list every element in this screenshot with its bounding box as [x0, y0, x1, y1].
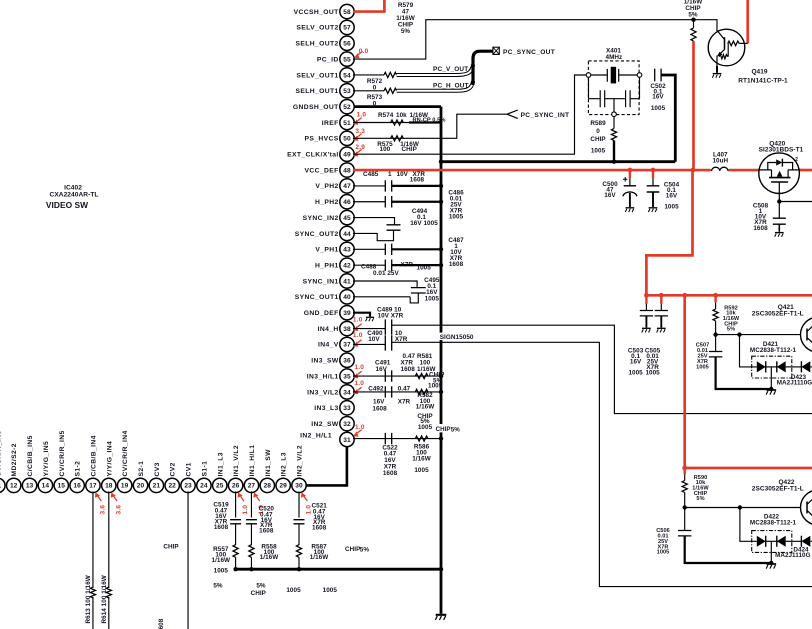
- svg-text:23: 23: [184, 483, 192, 490]
- junction base node/diode branch D422: [738, 505, 742, 509]
- svg-text:1608: 1608: [449, 261, 464, 268]
- pin 12 MD2/S2-2: [7, 478, 21, 492]
- svg-text:1005: 1005: [214, 568, 229, 575]
- pin 39 GND_DEF: [340, 306, 354, 320]
- wire IN4_V to right side: [392, 342, 812, 586]
- diode D424 MA2J1110: [800, 536, 802, 547]
- svg-text:40: 40: [343, 294, 351, 301]
- wire pin 45 to C494: [353, 218, 395, 225]
- svg-text:Y/Y/G_IN4: Y/Y/G_IN4: [106, 441, 113, 477]
- svg-text:RT1N141C-TP-1: RT1N141C-TP-1: [738, 78, 788, 85]
- svg-text:PC_H_OUT: PC_H_OUT: [433, 82, 469, 89]
- svg-text:V_PH1: V_PH1: [315, 247, 338, 254]
- wire C519 to R557: [235, 524, 237, 545]
- svg-text:H_PH2: H_PH2: [315, 199, 339, 206]
- wire pin 43 to C487: [353, 248, 385, 250]
- svg-text:1005: 1005: [651, 105, 666, 112]
- svg-text:PC_SYNC_INT: PC_SYNC_INT: [521, 112, 570, 119]
- svg-text:MA2J1110G: MA2J1110G: [775, 552, 811, 559]
- svg-text:1005: 1005: [323, 587, 338, 594]
- pin 20 S2-1: [133, 478, 147, 492]
- svg-text:10uH: 10uH: [712, 158, 728, 165]
- voltage label 3.6 at pin 17: [93, 491, 101, 499]
- junction base node/diode branch: [737, 332, 741, 336]
- cable to PC_SYNC_OUT: [473, 51, 493, 85]
- svg-text:1.0: 1.0: [353, 316, 363, 323]
- pin 26 IN1_V/L2: [228, 478, 242, 492]
- pin 38 IN4_H: [340, 321, 354, 335]
- resistor R614: [106, 587, 111, 598]
- svg-text:IN4_V: IN4_V: [318, 342, 339, 349]
- junction ground rail D421: [769, 387, 773, 391]
- svg-text:C/CB/B_IN5: C/CB/B_IN5: [27, 435, 34, 476]
- svg-text:CHIP: CHIP: [402, 146, 418, 153]
- junction R557/bus: [233, 567, 237, 571]
- svg-text:1608: 1608: [214, 524, 229, 531]
- ground at C500: [625, 208, 634, 212]
- svg-text:1/16W: 1/16W: [416, 404, 435, 411]
- svg-text:SELV_OUT1: SELV_OUT1: [296, 72, 338, 79]
- voltage label 1.0 at pin 34: [352, 389, 360, 397]
- wire C502 branch down to bus: [661, 75, 675, 162]
- wire C495 to pin 40: [353, 293, 418, 303]
- junction C485/bus: [439, 184, 443, 188]
- wire bottom gnd bus: [236, 568, 441, 571]
- svg-text:48: 48: [343, 167, 351, 174]
- svg-text:CHIP: CHIP: [163, 544, 179, 551]
- pin 17 C/CB/B_IN4: [86, 478, 100, 492]
- junction C504/red bus: [651, 168, 656, 173]
- diode D421 left: [757, 361, 766, 372]
- wire pin 44 to C494: [353, 230, 394, 241]
- capacitor C506: [684, 508, 686, 531]
- svg-text:16V: 16V: [604, 192, 616, 199]
- wire pin 39 GND_DEF: [353, 313, 370, 317]
- junction R558/bus: [249, 567, 253, 571]
- junction PC_ID line / resistor: [691, 18, 695, 22]
- svg-text:14: 14: [42, 483, 50, 490]
- capacitor C488: [385, 259, 391, 270]
- wire red bus right of Q420: [799, 169, 812, 172]
- junction ground rail D422: [769, 561, 773, 565]
- wire pin 27 to C520: [250, 491, 252, 517]
- wire R558 to gnd bus: [250, 557, 252, 569]
- capacitor C491: [385, 370, 391, 381]
- svg-text:VCCSH_OUT: VCCSH_OUT: [294, 9, 340, 16]
- svg-text:R589: R589: [590, 120, 606, 127]
- wire pin 50 PS_HVCS to PC_SYNC_INT: [353, 114, 507, 138]
- pin 56 SELH_OUT2: [340, 36, 354, 50]
- diode D421 right: [766, 366, 777, 368]
- ground at C505: [657, 328, 666, 332]
- svg-text:SELH_OUT2: SELH_OUT2: [296, 41, 339, 48]
- svg-text:53: 53: [343, 88, 351, 95]
- svg-text:22: 22: [168, 483, 176, 490]
- svg-text:SYNC_OUT1: SYNC_OUT1: [295, 294, 339, 301]
- svg-text:IREF: IREF: [322, 120, 339, 127]
- resistor pull at x693: [693, 20, 695, 28]
- svg-text:38: 38: [343, 326, 351, 333]
- svg-text:20: 20: [137, 483, 145, 490]
- transistor Q422 2SC3052EF-T1-L: [801, 490, 812, 525]
- pin 15 CV/CR/R_IN5: [54, 478, 68, 492]
- wire pin 35 to bus: [353, 375, 441, 377]
- junction red C503: [644, 293, 649, 298]
- svg-text:42: 42: [343, 262, 351, 269]
- junction R592/C507: [713, 332, 717, 336]
- junction R590/C506: [683, 505, 687, 509]
- ground at bottom of GNDSH bus: [435, 615, 446, 620]
- svg-text:49: 49: [343, 152, 351, 159]
- svg-text:1005: 1005: [449, 214, 464, 221]
- svg-text:1: 1: [388, 171, 392, 178]
- junction C486/bus: [439, 200, 443, 204]
- capacitor C520: [246, 520, 257, 524]
- label CHIP 5% near bus: [434, 424, 462, 432]
- svg-text:10k: 10k: [396, 112, 407, 119]
- wire C506 to ground rail: [685, 536, 772, 563]
- svg-text:CHIP: CHIP: [251, 590, 267, 597]
- wire pin 41 to C495: [353, 281, 417, 288]
- IC402 package outline corner wire: [306, 447, 347, 486]
- svg-text:2.9: 2.9: [355, 144, 365, 151]
- svg-text:SI2301BDS-T1: SI2301BDS-T1: [759, 146, 804, 153]
- wire center tap to bottom terminal: [613, 99, 615, 112]
- svg-text:CV3: CV3: [154, 462, 161, 476]
- pin 55 PC_ID: [340, 52, 354, 66]
- pin 18 Y/Y/G_IN4: [102, 478, 116, 492]
- voltage label 1.0 at pin 27: [251, 491, 259, 499]
- resistor R589: [611, 129, 616, 141]
- svg-text:1005: 1005: [418, 424, 433, 431]
- svg-text:CV1: CV1: [186, 462, 193, 476]
- svg-text:2SC3052EF-T1-L: 2SC3052EF-T1-L: [752, 485, 804, 492]
- wire pin 54 to R572: [353, 74, 384, 76]
- dual diode D422 MC2838-T112-1 box: [752, 531, 792, 553]
- wire red bus y=468: [685, 467, 812, 470]
- junction C487/bus: [439, 247, 443, 251]
- capacitor C492: [385, 386, 391, 397]
- crystal X401 dashed box: [588, 61, 639, 115]
- svg-text:R574: R574: [378, 112, 394, 119]
- svg-text:10V: 10V: [368, 336, 380, 343]
- wire pin 53 to R573: [353, 90, 384, 92]
- voltage label 1.0 at pin 31: [352, 431, 360, 439]
- capacitor C519: [230, 520, 241, 524]
- capacitor C502: [655, 69, 661, 82]
- svg-text:1.0: 1.0: [242, 505, 249, 515]
- voltage label 2.9 at pin 49: [352, 151, 360, 159]
- pin 19 CV/CR/R_IN4: [117, 478, 131, 492]
- pin 37 IN4_V: [340, 337, 354, 351]
- svg-text:30: 30: [295, 483, 303, 490]
- svg-text:34: 34: [343, 389, 351, 396]
- wire GNDSH vertical bus: [440, 107, 443, 614]
- ground at Q419 emitter: [712, 74, 721, 78]
- connector PC_SYNC_INT: [507, 110, 518, 118]
- svg-text:1.0: 1.0: [354, 364, 364, 371]
- svg-text:1608: 1608: [312, 524, 327, 531]
- svg-text:54: 54: [343, 72, 351, 79]
- svg-text:SYNC_IN2: SYNC_IN2: [303, 215, 339, 222]
- pin 48 VCC_DEF: [340, 163, 354, 177]
- junction bus/crystal-branch: [439, 160, 443, 164]
- svg-text:39: 39: [343, 310, 351, 317]
- pin 21 CV3: [149, 478, 163, 492]
- capacitor C500 electrolytic: [629, 170, 631, 178]
- wire pin 51 IREF to bus: [353, 122, 409, 124]
- svg-text:C485: C485: [363, 171, 379, 178]
- pin 41 SYNC_IN1: [340, 274, 354, 288]
- svg-text:16V: 16V: [652, 94, 664, 101]
- voltage label 1.0 at pin 37: [352, 341, 360, 349]
- wire D421 anode branch: [740, 335, 757, 367]
- resistor R592: [714, 295, 716, 302]
- svg-text:52: 52: [343, 104, 351, 111]
- wire IN4_H to right side: [392, 325, 812, 413]
- pin 32 IN2_SW: [340, 416, 354, 430]
- svg-text:1005: 1005: [696, 364, 709, 370]
- svg-text:36: 36: [343, 358, 351, 365]
- svg-text:1608: 1608: [158, 618, 165, 629]
- svg-text:1/16W: 1/16W: [260, 554, 279, 561]
- resistor R557: [233, 545, 238, 558]
- voltage label 1.0 at pin 51: [352, 119, 360, 127]
- wire red resistor to VCC bus: [692, 41, 695, 170]
- svg-text:PS_HVCS: PS_HVCS: [305, 136, 339, 143]
- svg-text:IC402: IC402: [64, 185, 82, 192]
- svg-text:18: 18: [105, 483, 113, 490]
- pin 40 SYNC_OUT1: [340, 290, 354, 304]
- svg-text:1608: 1608: [383, 470, 398, 477]
- svg-text:27: 27: [248, 483, 256, 490]
- svg-text:1608: 1608: [259, 528, 274, 535]
- svg-text:MD2/S2-2: MD2/S2-2: [11, 443, 18, 476]
- svg-text:IN2_H/L1: IN2_H/L1: [300, 432, 332, 439]
- svg-text:1.0: 1.0: [355, 424, 365, 431]
- svg-text:CV/CR/R_IN6: CV/CR/R_IN6: [0, 430, 2, 476]
- svg-text:28: 28: [264, 483, 272, 490]
- svg-text:5%: 5%: [401, 28, 411, 35]
- svg-text:1/16W: 1/16W: [412, 455, 431, 462]
- crystal right terminal: [637, 73, 642, 78]
- svg-text:C492: C492: [368, 385, 384, 392]
- pin 45 SYNC_IN2: [340, 210, 354, 224]
- svg-text:1608: 1608: [372, 405, 387, 412]
- pin 49 EXT_CLK/X'tal: [340, 147, 354, 161]
- capacitor C489: [385, 319, 391, 334]
- wire C521 to R587: [298, 524, 300, 545]
- pin 57 SELV_OUT2: [340, 20, 354, 34]
- svg-text:PC_ID: PC_ID: [317, 56, 339, 63]
- svg-text:H_PH1: H_PH1: [315, 262, 339, 269]
- pin 58 VCCSH_OUT: [340, 4, 354, 18]
- wire pin 34 to bus: [353, 391, 441, 393]
- svg-text:S1-1: S1-1: [201, 461, 208, 477]
- transistor Q421 2SC3052EF-T1-L: [801, 317, 812, 352]
- pin 50 PS_HVCS: [340, 131, 354, 145]
- svg-text:13: 13: [26, 483, 34, 490]
- resistor R572: [384, 72, 397, 77]
- pin 46 H_PH2: [340, 195, 354, 209]
- mosfet Q420 SI2301BDS-T1: [759, 153, 800, 194]
- junction red vertical x685: [682, 293, 687, 298]
- red wire top edge to Q419 base network: [746, 0, 749, 43]
- svg-text:15: 15: [58, 483, 66, 490]
- junction R581/bus: [439, 374, 443, 378]
- svg-text:37: 37: [343, 342, 351, 349]
- svg-text:1005: 1005: [645, 370, 660, 377]
- pin 33 IN3_L3: [340, 401, 354, 415]
- wire D421 to D423: [786, 366, 802, 368]
- svg-text:1.0: 1.0: [357, 112, 367, 119]
- diode D423 MA2J1110: [800, 361, 802, 372]
- svg-text:IN3_L3: IN3_L3: [314, 405, 338, 412]
- svg-text:32: 32: [343, 421, 351, 428]
- ground at C504: [648, 208, 657, 212]
- svg-text:2: 2: [795, 157, 798, 163]
- wire D422 center tap to ground: [770, 541, 772, 563]
- svg-text:4MHz: 4MHz: [606, 54, 623, 61]
- svg-text:1005: 1005: [664, 204, 679, 211]
- junction Q420/C508: [777, 199, 781, 203]
- capacitor C505: [660, 295, 662, 304]
- junction R582/bus: [439, 390, 443, 394]
- svg-text:R614 100 1/16W: R614 100 1/16W: [101, 575, 108, 623]
- resistor R558: [249, 545, 254, 558]
- svg-text:Q419: Q419: [751, 69, 767, 76]
- pin 25 IN1_L3: [213, 478, 227, 492]
- wire Q420 gate down: [778, 193, 780, 201]
- wire C487 to bus: [392, 248, 441, 250]
- wire PC_H_OUT outlined: [397, 81, 474, 91]
- junction red R590: [682, 466, 687, 471]
- svg-text:SELH_OUT1: SELH_OUT1: [296, 88, 339, 95]
- svg-text:1005: 1005: [428, 383, 443, 390]
- svg-text:GND_DEF: GND_DEF: [304, 310, 339, 317]
- wire PC_V_OUT outlined: [397, 65, 474, 75]
- wire GNDSH bus from pin 52: [353, 105, 441, 108]
- junction red R592: [713, 293, 718, 298]
- pin 34 IN3_V/L2: [340, 385, 354, 399]
- svg-text:R613 100 1/16W: R613 100 1/16W: [85, 575, 92, 623]
- wire left terminal to crystal: [591, 74, 608, 76]
- wire crystal to right terminal: [619, 74, 638, 76]
- svg-text:45: 45: [343, 215, 351, 222]
- svg-text:0.01 25V: 0.01 25V: [373, 270, 400, 277]
- pin 36 IN3_SW: [340, 353, 354, 367]
- capacitor C494: [387, 225, 401, 230]
- transistor Q419 RT1N141C-TP-1: [708, 29, 745, 66]
- svg-text:RN-CP 0.5%: RN-CP 0.5%: [413, 118, 446, 124]
- wire red jog from VCC bus down: [646, 170, 692, 295]
- svg-text:10V: 10V: [397, 171, 409, 178]
- resistor R573: [384, 88, 397, 93]
- svg-text:VIDEO SW: VIDEO SW: [46, 200, 88, 210]
- pin 11 CV/CR/R_IN6: [0, 478, 5, 492]
- crystal left terminal: [586, 73, 591, 78]
- svg-text:CHIP: CHIP: [436, 426, 451, 433]
- wire pin 55 PC_ID to Q419: [353, 20, 717, 59]
- wire base node to Q422: [685, 507, 801, 509]
- svg-text:56: 56: [343, 41, 351, 48]
- svg-text:PC_V_OUT: PC_V_OUT: [433, 66, 468, 73]
- junction R589/bus: [612, 160, 616, 164]
- svg-text:IN2_V/L2: IN2_V/L2: [297, 445, 304, 477]
- wire C507 to ground rail: [716, 357, 772, 389]
- svg-text:47: 47: [343, 183, 351, 190]
- junction red bus x693: [691, 168, 696, 173]
- svg-text:29: 29: [279, 483, 287, 490]
- wire Q420 node to right edge: [779, 201, 812, 203]
- wire pin 17 down: [92, 491, 94, 588]
- svg-text:1.0: 1.0: [353, 332, 363, 339]
- connector PC_SYNC_OUT: [493, 47, 499, 54]
- svg-text:SYNC_IN1: SYNC_IN1: [303, 278, 339, 285]
- capacitor C487: [385, 244, 391, 255]
- svg-text:51: 51: [343, 120, 351, 127]
- wire pin 26 to C519: [235, 491, 237, 517]
- svg-text:Y/Y/G_IN5: Y/Y/G_IN5: [43, 441, 50, 477]
- junction R587/bus: [297, 567, 301, 571]
- voltage label 1.0 at pin 30: [299, 491, 307, 499]
- ground at D421/C507: [766, 390, 776, 395]
- wire R587 to gnd bus: [298, 557, 300, 569]
- wire R614 down: [108, 597, 110, 629]
- wire pin 42 to C488: [353, 264, 385, 266]
- pin 14 Y/Y/G_IN5: [38, 478, 52, 492]
- wire C486 to bus: [392, 201, 441, 203]
- wire C520 to R558: [250, 524, 252, 545]
- pin 23 CV1: [181, 478, 195, 492]
- svg-text:1005: 1005: [657, 550, 670, 556]
- resistor R613: [90, 587, 95, 598]
- wire R613 down: [92, 597, 94, 629]
- net label SIGN15050: [439, 333, 477, 340]
- svg-text:17: 17: [89, 483, 97, 490]
- svg-text:CXA2240AR-TL: CXA2240AR-TL: [50, 192, 99, 199]
- resistor R581: [415, 374, 428, 379]
- wire C485 to bus: [392, 185, 441, 187]
- svg-text:1.0: 1.0: [354, 380, 364, 387]
- svg-text:CV/CR/R_IN4: CV/CR/R_IN4: [122, 430, 129, 476]
- svg-text:1005: 1005: [591, 148, 606, 155]
- svg-text:S1-2: S1-2: [75, 461, 82, 477]
- wire pin 47 to C485: [353, 185, 385, 187]
- load capacitor right: [626, 77, 640, 107]
- pin 35 IN3_H/L1: [340, 369, 354, 383]
- svg-text:5%: 5%: [688, 11, 698, 18]
- svg-text:IN2_SW: IN2_SW: [311, 421, 339, 428]
- svg-text:MC2838-T112-1: MC2838-T112-1: [750, 347, 797, 354]
- svg-text:16V: 16V: [376, 366, 388, 373]
- svg-text:55: 55: [343, 56, 351, 63]
- pin 44 SYNC_OUT2: [340, 226, 354, 240]
- wire bottom terminal to R589: [613, 117, 615, 129]
- svg-text:CV/CR/R_IN5: CV/CR/R_IN5: [59, 430, 66, 476]
- svg-text:1/16W: 1/16W: [310, 554, 329, 561]
- svg-text:X7R: X7R: [398, 399, 411, 406]
- svg-text:CV2: CV2: [170, 462, 177, 476]
- svg-text:1608: 1608: [401, 366, 416, 373]
- svg-text:1005: 1005: [286, 587, 301, 594]
- pin 54 SELV_OUT1: [340, 68, 354, 82]
- ground at D422/C506: [766, 564, 776, 569]
- svg-text:16V 1005: 16V 1005: [410, 220, 438, 227]
- svg-text:46: 46: [343, 199, 351, 206]
- svg-text:SELV_OUT2: SELV_OUT2: [296, 25, 338, 32]
- svg-text:V_PH2: V_PH2: [315, 183, 338, 190]
